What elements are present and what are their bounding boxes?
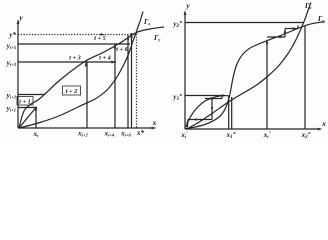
curve Gamma_x (convex, lower-right) (19, 12, 143, 129)
svg-text:yi+1: yi+1 (6, 105, 16, 113)
svg-text:y1*: y1* (172, 92, 182, 102)
svg-text:xi″: xi″ (263, 131, 272, 139)
up arrowhead at top of x_{i+6} line (127, 36, 129, 40)
svg-text:xi: xi (33, 130, 40, 138)
vertical line x_{i+2} (86, 62, 88, 128)
svg-text:y2*: y2* (172, 19, 182, 29)
svg-text:t + 3: t + 3 (69, 55, 80, 62)
top staircase: horizontal y=38.5 (267, 36, 285, 38)
svg-text:x: x (152, 118, 157, 127)
curve Gamma_x (convex steep) (188, 3, 311, 129)
x_2* vertical (304, 26, 306, 129)
vertical line x_{i+4} (114, 44, 116, 128)
staircase in lens: vertical x=212 (211, 99, 213, 120)
svg-text:t + 1: t + 1 (19, 99, 30, 106)
y axis arrowhead (17, 19, 20, 24)
y_1* level line with arrow (185, 95, 224, 97)
x axis (185, 128, 320, 130)
up arrowhead at intersection knot (130, 34, 133, 39)
svg-text:t + 6: t + 6 (116, 46, 128, 53)
arrowhead at staircase corner (115,62) (111, 61, 116, 64)
svg-text:Γy: Γy (317, 15, 325, 23)
arrowhead on y* dotted line (mid) (101, 33, 106, 36)
t+2 box (63, 86, 81, 95)
y_2* level line (185, 22, 304, 24)
arrowhead on y_{i+5} at x_{i+4} (114, 44, 117, 49)
staircase in lens: horizontal y=119.5 (188, 119, 213, 121)
vertical line x_{i+6} (127, 35, 129, 129)
svg-text:x1*: x1* (226, 130, 236, 140)
svg-text:x2*: x2* (301, 130, 311, 140)
dotted y* level line (18, 34, 136, 36)
x axis (18, 127, 154, 129)
svg-text:yi+3: yi+3 (6, 59, 17, 67)
x axis arrowhead (152, 127, 157, 130)
svg-text:t + 4: t + 4 (99, 55, 110, 62)
top staircase: horizontal y=28.5 (285, 28, 298, 30)
y_{i+5} level line (18, 43, 130, 45)
x_i'' vertical with up arrow (266, 42, 268, 129)
curve Gamma_y (concave, upper-left) (19, 27, 164, 128)
top staircase: vertical x=285 (284, 29, 286, 38)
small right arrowhead on y* dotted line (131, 33, 136, 36)
svg-text:xi+2: xi+2 (77, 130, 88, 138)
svg-text:Γx: Γx (143, 18, 151, 26)
svg-text:xi′: xi′ (180, 131, 188, 139)
svg-text:yi+5: yi+5 (6, 42, 17, 50)
dotted vertical x* (136, 31, 138, 128)
lens upper arc (iterate path) (186, 96, 230, 127)
svg-text:x: x (321, 119, 326, 128)
t+1 box (17, 97, 33, 106)
arrowhead on y_{i+3} at x_{i+2} (85, 62, 88, 67)
staircase in lens: vertical x=222 (221, 96, 223, 99)
svg-text:t + 2: t + 2 (66, 88, 77, 95)
top staircase: vertical x=298 (297, 26, 299, 29)
x_1* double vertical (228, 96, 230, 129)
svg-text:t + 5: t + 5 (94, 35, 105, 42)
y axis (17, 22, 19, 128)
first iterate arrow t+1 (vertical at x_i) (35, 107, 37, 128)
y_{i+3} level line (18, 61, 116, 63)
y_{i+1} level line (18, 107, 37, 109)
vertical line at intersection (131, 33, 133, 128)
staircase in lens: horizontal y=98.5 (205, 98, 222, 100)
staircase in lens: start up arrow (187, 122, 189, 128)
svg-text:xi+6: xi+6 (120, 130, 131, 138)
y axis (184, 13, 186, 129)
diagonal arrow from origin to t+1 corner (19, 108, 36, 129)
svg-text:y*: y* (8, 31, 16, 39)
y_{i+2} level line (18, 94, 44, 96)
svg-text:x*: x* (136, 129, 145, 137)
svg-text:y: y (18, 13, 23, 22)
svg-text:yi+2: yi+2 (6, 92, 17, 100)
curve Gamma_y (S-shaped) (185, 22, 325, 129)
svg-text:y: y (185, 1, 190, 10)
svg-text:Γy: Γy (153, 34, 161, 42)
svg-text:xi+4: xi+4 (104, 130, 115, 138)
